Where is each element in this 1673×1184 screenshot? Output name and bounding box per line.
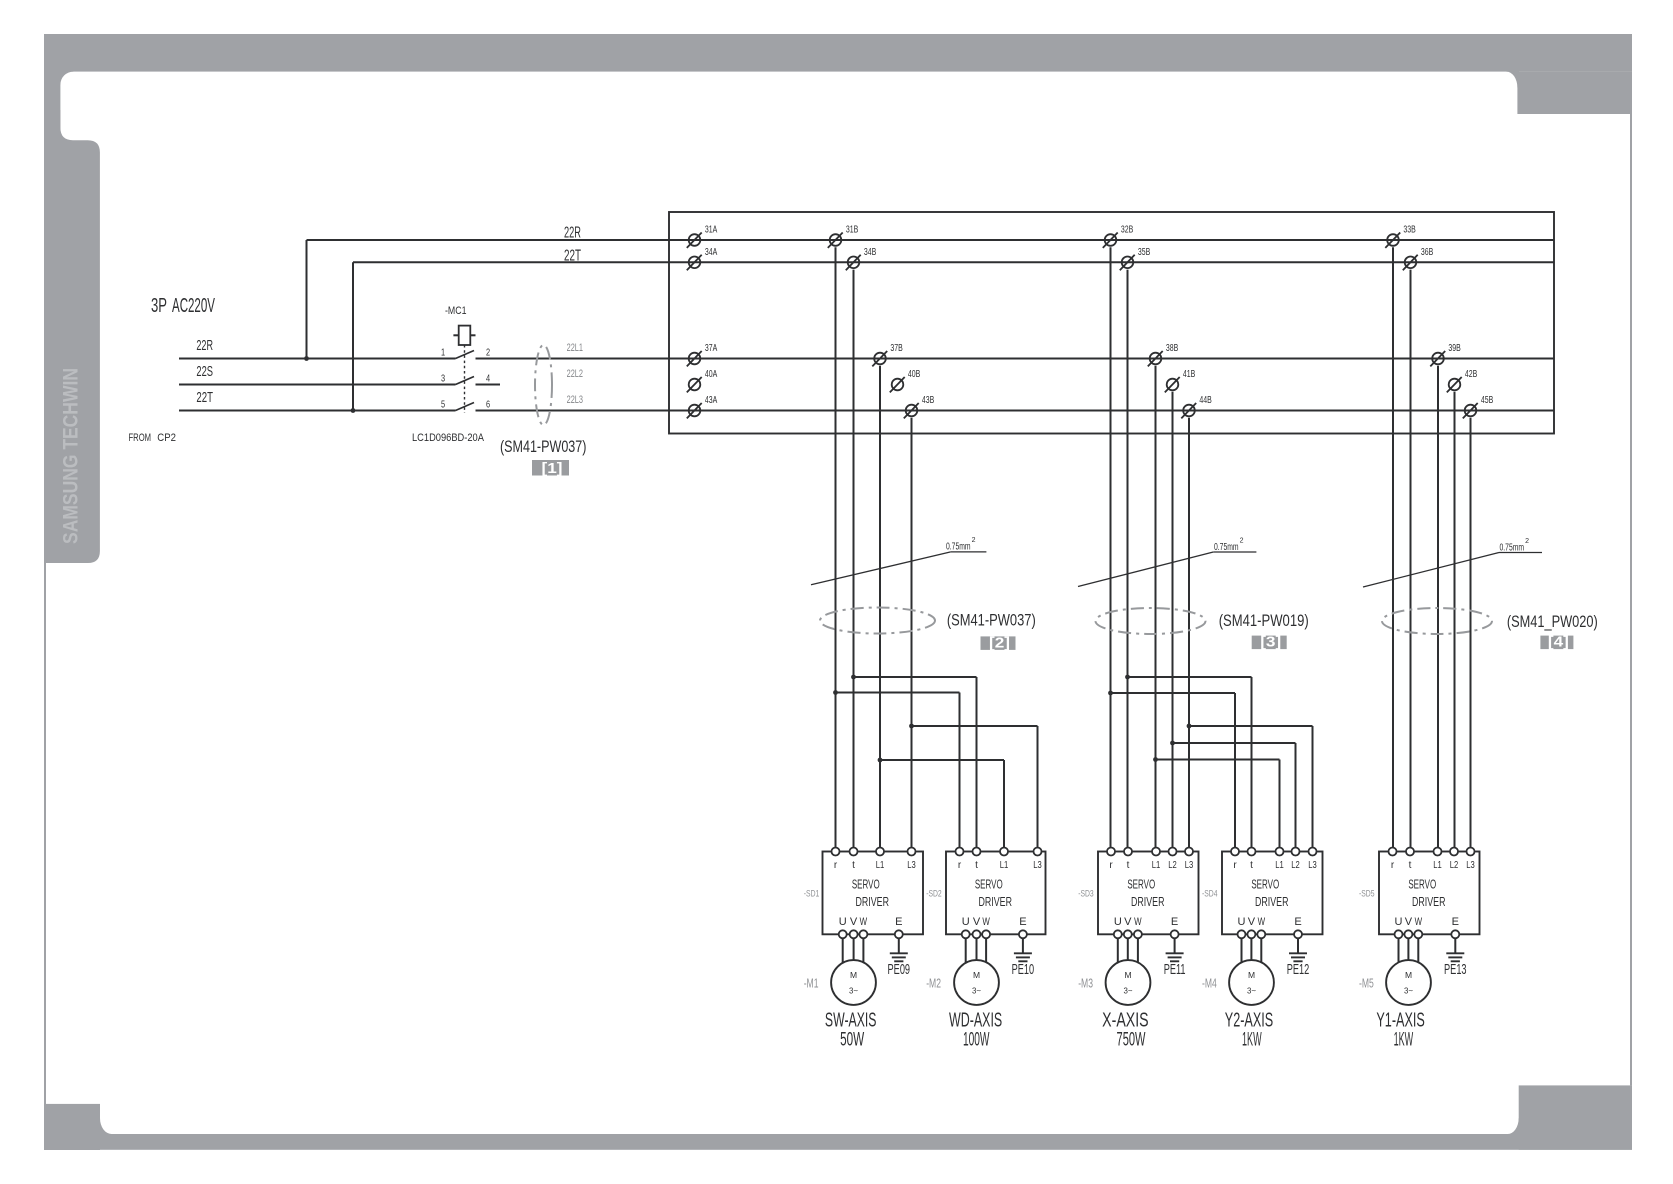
- svg-text:E: E: [895, 916, 902, 928]
- svg-text:45B: 45B: [1481, 394, 1494, 406]
- svg-text:DRIVER: DRIVER: [1131, 896, 1165, 910]
- wire SD4 r branch: [1111, 693, 1236, 848]
- svg-text:34B: 34B: [864, 246, 877, 258]
- motor M5 Y1-AXIS 1KW: [1359, 960, 1431, 1051]
- node FROM CP2 label: [129, 431, 177, 444]
- fuse 44B: [1181, 394, 1212, 419]
- svg-text:32B: 32B: [1121, 223, 1134, 235]
- svg-text:3~: 3~: [972, 986, 981, 995]
- cable reference badge [3]: [1252, 635, 1287, 651]
- junction on 22R: [304, 356, 309, 361]
- svg-text:2: 2: [486, 346, 490, 357]
- fuse 35B: [1120, 246, 1151, 271]
- fuse 45B: [1463, 394, 1494, 419]
- svg-text:3: 3: [441, 372, 445, 383]
- svg-text:r: r: [958, 860, 962, 871]
- svg-text:L3: L3: [1033, 859, 1042, 870]
- svg-text:CP2: CP2: [157, 431, 176, 444]
- svg-text:SAMSUNG TECHWIN: SAMSUNG TECHWIN: [59, 368, 83, 544]
- svg-text:E: E: [1171, 916, 1178, 928]
- junction SD4 t tap: [1125, 675, 1130, 680]
- fuse 33B: [1385, 223, 1416, 248]
- svg-text:3~: 3~: [1124, 986, 1133, 995]
- svg-text:t: t: [1409, 860, 1412, 871]
- svg-text:M: M: [973, 970, 980, 980]
- svg-text:3~: 3~: [1404, 986, 1413, 995]
- wire SD2 L3 branch: [912, 726, 1038, 848]
- junction SD4 L3 tap: [1187, 724, 1192, 729]
- svg-text:31A: 31A: [705, 223, 718, 235]
- fuse 43B: [904, 394, 935, 419]
- svg-text:44B: 44B: [1199, 394, 1212, 406]
- svg-text:36B: 36B: [1421, 246, 1434, 258]
- svg-text:DRIVER: DRIVER: [979, 896, 1013, 910]
- wire SD4 L1 branch: [1156, 760, 1280, 848]
- fuse 34A: [687, 246, 718, 271]
- motor M1 SW-AXIS 50W: [804, 960, 877, 1050]
- wire SD3 E to ground: [1174, 938, 1176, 953]
- svg-text:U: U: [962, 916, 970, 928]
- svg-text:31B: 31B: [846, 223, 859, 235]
- svg-text:-M3: -M3: [1078, 977, 1093, 991]
- svg-text:3P: 3P: [151, 294, 167, 316]
- fuse 40B: [890, 368, 921, 393]
- svg-text:37A: 37A: [705, 342, 718, 354]
- junction SD2 r tap: [833, 690, 838, 695]
- svg-text:33B: 33B: [1403, 223, 1416, 235]
- wire drop 31B to SD1 r: [835, 247, 837, 847]
- junction SD2 L1 tap: [878, 758, 883, 763]
- svg-text:t: t: [1127, 860, 1130, 871]
- cable marker ellipse SM41-PW037 vertical: [535, 345, 552, 425]
- junction SD4 L1 tap: [1153, 757, 1158, 762]
- svg-text:22R: 22R: [196, 337, 213, 354]
- svg-text:1: 1: [441, 346, 445, 357]
- svg-text:U: U: [1114, 916, 1122, 928]
- svg-text:L3: L3: [907, 859, 916, 870]
- wire SD4 E to ground: [1297, 938, 1299, 953]
- svg-text:W: W: [860, 916, 867, 929]
- fuse 43A: [687, 394, 718, 419]
- node 3P AC220V supply label: [151, 294, 215, 317]
- svg-text:L1: L1: [1433, 859, 1442, 870]
- cable marker ellipse SM41-PW019 group: [1096, 608, 1206, 634]
- svg-text:-M1: -M1: [804, 977, 819, 991]
- svg-text:DRIVER: DRIVER: [1255, 896, 1289, 910]
- fuse 42B: [1447, 368, 1478, 393]
- fuse 34B: [846, 246, 877, 271]
- svg-text:t: t: [852, 860, 855, 871]
- svg-text:U: U: [839, 916, 847, 928]
- motor M2 WD-AXIS 100W: [926, 960, 1002, 1050]
- svg-text:E: E: [1294, 916, 1301, 928]
- svg-text:22S: 22S: [196, 363, 213, 380]
- svg-text:SERVO: SERVO: [1408, 879, 1436, 892]
- svg-text:37B: 37B: [890, 342, 903, 354]
- fuse 32B: [1103, 223, 1134, 248]
- svg-text:M: M: [850, 970, 857, 980]
- wire-size leader G2 0.75mm2: [1078, 538, 1256, 587]
- svg-text:L2: L2: [1168, 859, 1177, 870]
- wire 22T riser: [352, 262, 354, 410]
- svg-text:[3]: [3]: [1260, 635, 1281, 651]
- contactor MC1 contact 3-4: [441, 372, 490, 384]
- svg-text:40B: 40B: [908, 368, 921, 380]
- svg-text:-M4: -M4: [1202, 977, 1217, 991]
- svg-text:r: r: [1391, 860, 1395, 871]
- cable marker ellipse SM41_PW020 group: [1382, 608, 1492, 634]
- svg-text:42B: 42B: [1465, 368, 1478, 380]
- svg-text:(SM41-PW019): (SM41-PW019): [1219, 613, 1309, 631]
- svg-text:-SD3: -SD3: [1078, 888, 1094, 898]
- svg-text:PE11: PE11: [1164, 961, 1186, 978]
- wire drop 42B to SD5 L2: [1454, 392, 1456, 848]
- svg-text:(SM41-PW037): (SM41-PW037): [947, 612, 1036, 630]
- svg-text:W: W: [982, 916, 989, 929]
- wire 22L1 row: [476, 342, 1555, 359]
- svg-text:1KW: 1KW: [1394, 1029, 1414, 1051]
- fuse 37A: [687, 342, 718, 367]
- svg-text:W: W: [1134, 916, 1141, 929]
- svg-text:35B: 35B: [1138, 246, 1151, 258]
- svg-text:2: 2: [972, 537, 976, 544]
- svg-text:V: V: [1124, 916, 1132, 928]
- wire SD2 t branch: [854, 677, 977, 848]
- fuse 31A: [687, 223, 718, 248]
- svg-text:0.75mm: 0.75mm: [946, 540, 971, 552]
- servo driver U1 SD1: [804, 848, 923, 964]
- wire SD1 E to ground: [898, 938, 900, 953]
- svg-text:L2: L2: [1450, 859, 1459, 870]
- fuse 37B: [872, 342, 903, 367]
- wire drop 35B to SD3 t: [1127, 270, 1129, 848]
- servo driver U5 SD5: [1359, 848, 1480, 964]
- ground PE12: [1287, 953, 1310, 977]
- svg-text:PE13: PE13: [1444, 961, 1467, 978]
- svg-text:SERVO: SERVO: [1251, 879, 1279, 892]
- fuse 38B: [1148, 342, 1179, 367]
- svg-text:22L2: 22L2: [567, 368, 583, 380]
- svg-text:22L3: 22L3: [567, 394, 583, 406]
- svg-text:(SM41_PW020): (SM41_PW020): [1507, 613, 1598, 631]
- svg-text:2: 2: [1525, 538, 1529, 545]
- wire drop 41B to SD3 L2: [1172, 392, 1174, 848]
- junction on 22T: [351, 408, 356, 413]
- svg-text:-M5: -M5: [1359, 977, 1374, 991]
- svg-text:AC220V: AC220V: [172, 295, 215, 317]
- wire 22R bus: [307, 224, 1555, 241]
- svg-text:22T: 22T: [196, 389, 213, 406]
- cable reference badge [4]: [1540, 635, 1573, 651]
- junction SD2 L3 tap: [909, 724, 914, 729]
- svg-text:1KW: 1KW: [1242, 1029, 1262, 1051]
- svg-text:750W: 750W: [1117, 1030, 1146, 1051]
- motor M4 Y2-AXIS 1KW: [1202, 960, 1274, 1051]
- svg-text:L1: L1: [1275, 859, 1284, 870]
- ground PE13: [1444, 953, 1467, 977]
- svg-text:W: W: [1415, 916, 1422, 929]
- svg-text:34A: 34A: [705, 246, 718, 258]
- cable label (SM41-PW019) [3]: [1219, 613, 1309, 631]
- svg-text:Y1-AXIS: Y1-AXIS: [1376, 1008, 1424, 1031]
- svg-text:LC1D096BD-20A: LC1D096BD-20A: [412, 432, 484, 444]
- svg-text:W: W: [1258, 916, 1265, 929]
- wire-size leader G3 0.75mm2: [1363, 538, 1542, 587]
- wire 22R source: [179, 337, 456, 359]
- wire 22L2 stub: [476, 368, 584, 385]
- svg-text:22T: 22T: [564, 246, 581, 264]
- svg-text:L1: L1: [876, 859, 885, 870]
- svg-text:t: t: [975, 860, 978, 871]
- cable label (SM41-PW037) [1]: [500, 437, 586, 456]
- svg-text:SERVO: SERVO: [975, 879, 1003, 892]
- svg-text:-M2: -M2: [926, 977, 941, 991]
- svg-text:[1]: [1]: [542, 461, 563, 477]
- svg-text:SERVO: SERVO: [1127, 879, 1155, 892]
- cable label (SM41_PW020) [4]: [1507, 613, 1598, 631]
- svg-text:0.75mm: 0.75mm: [1214, 541, 1239, 553]
- svg-text:-SD4: -SD4: [1202, 888, 1218, 898]
- contactor type label LC1D096BD-20A: [412, 432, 484, 444]
- wire 22L3 row: [476, 394, 1555, 411]
- wire 22R riser: [306, 240, 308, 359]
- wire drop 34B to SD1 t: [853, 270, 855, 848]
- svg-text:4: 4: [486, 372, 490, 383]
- svg-text:M: M: [1405, 970, 1412, 980]
- servo driver U3 SD3: [1078, 848, 1198, 964]
- svg-text:Y2-AXIS: Y2-AXIS: [1225, 1008, 1273, 1031]
- wire drop 39B to SD5 L1: [1437, 366, 1439, 848]
- junction SD4 r tap: [1108, 691, 1113, 696]
- svg-text:(SM41-PW037): (SM41-PW037): [500, 437, 586, 456]
- svg-text:L3: L3: [1185, 859, 1194, 870]
- contactor MC1 coil: [445, 305, 476, 345]
- wire drop 44B to SD3 L3: [1188, 418, 1190, 848]
- ground PE9: [888, 953, 911, 977]
- svg-text:[4]: [4]: [1548, 635, 1569, 651]
- svg-text:E: E: [1019, 916, 1026, 928]
- ground PE11: [1164, 953, 1186, 977]
- svg-text:-SD2: -SD2: [926, 888, 942, 898]
- svg-text:U: U: [1238, 916, 1246, 928]
- fuse 41B: [1165, 368, 1196, 393]
- svg-text:41B: 41B: [1183, 368, 1196, 380]
- wire drop 43B to SD1 L3: [911, 418, 913, 848]
- svg-text:PE10: PE10: [1012, 961, 1035, 978]
- wire 22S source: [179, 363, 456, 385]
- fuse 40A: [687, 368, 718, 393]
- cable reference badge [2]: [981, 636, 1016, 652]
- fuse panel box: [669, 212, 1554, 434]
- svg-text:2: 2: [1240, 538, 1244, 545]
- cable label (SM41-PW037) [2]: [947, 612, 1036, 630]
- svg-text:DRIVER: DRIVER: [856, 896, 890, 910]
- wire SD2 L1 branch: [880, 760, 1004, 848]
- svg-text:43A: 43A: [705, 394, 718, 406]
- wire drop 45B to SD5 L3: [1470, 418, 1472, 848]
- svg-text:DRIVER: DRIVER: [1412, 896, 1446, 910]
- svg-text:PE12: PE12: [1287, 961, 1310, 978]
- fuse 31B: [828, 223, 859, 248]
- svg-text:r: r: [1233, 860, 1237, 871]
- svg-text:L1: L1: [1152, 859, 1161, 870]
- fuse 36B: [1403, 246, 1434, 271]
- svg-text:V: V: [1248, 916, 1256, 928]
- svg-text:0.75mm: 0.75mm: [1500, 541, 1525, 553]
- svg-text:r: r: [1109, 860, 1113, 871]
- junction SD2 t tap: [851, 675, 856, 680]
- wire SD2 r branch: [836, 693, 960, 848]
- svg-text:43B: 43B: [922, 394, 935, 406]
- junction SD4 L2 tap: [1170, 741, 1175, 746]
- svg-text:r: r: [834, 860, 838, 871]
- svg-text:V: V: [973, 916, 981, 928]
- contactor MC1 contact 1-2: [441, 346, 490, 358]
- wire 22T source: [179, 389, 456, 411]
- svg-text:L1: L1: [1000, 859, 1009, 870]
- svg-text:L2: L2: [1291, 859, 1300, 870]
- svg-text:M: M: [1124, 970, 1131, 980]
- svg-text:X-AXIS: X-AXIS: [1102, 1008, 1148, 1031]
- svg-text:5: 5: [441, 398, 445, 409]
- wire drop 38B to SD3 L1: [1155, 366, 1157, 848]
- wire drop 37B to SD1 L1: [879, 366, 881, 848]
- wire SD5 E to ground: [1454, 938, 1456, 953]
- svg-text:6: 6: [486, 398, 490, 409]
- svg-text:-MC1: -MC1: [445, 305, 467, 317]
- svg-text:50W: 50W: [840, 1029, 865, 1051]
- contactor MC1 linkage: [464, 345, 466, 413]
- svg-text:WD-AXIS: WD-AXIS: [949, 1008, 1002, 1031]
- wire drop 36B to SD5 t: [1410, 270, 1412, 848]
- svg-text:t: t: [1250, 860, 1253, 871]
- svg-text:E: E: [1452, 916, 1459, 928]
- ground PE10: [1012, 953, 1035, 977]
- svg-text:U: U: [1395, 916, 1403, 928]
- svg-text:SERVO: SERVO: [852, 879, 880, 892]
- fuse 39B: [1430, 342, 1461, 367]
- svg-text:22L1: 22L1: [567, 342, 583, 354]
- svg-text:38B: 38B: [1166, 342, 1179, 354]
- svg-text:FROM: FROM: [129, 432, 152, 445]
- svg-text:V: V: [1405, 916, 1413, 928]
- contactor MC1 contact 5-6: [441, 398, 490, 410]
- svg-text:3~: 3~: [1247, 986, 1256, 995]
- wire SD2 E to ground: [1022, 938, 1024, 953]
- svg-text:3~: 3~: [849, 986, 858, 995]
- wire-size leader G1 0.75mm2: [811, 537, 986, 585]
- wire drop 33B to SD5 r: [1392, 247, 1394, 847]
- servo driver U2 SD2: [926, 848, 1045, 964]
- wire SD4 L2 branch: [1173, 743, 1296, 848]
- svg-text:-SD1: -SD1: [804, 888, 820, 898]
- svg-text:V: V: [850, 916, 858, 928]
- svg-text:39B: 39B: [1448, 342, 1461, 354]
- svg-text:PE09: PE09: [888, 961, 911, 978]
- wire drop 32B to SD3 r: [1110, 247, 1112, 847]
- svg-text:M: M: [1248, 970, 1255, 980]
- wire SD4 L3 branch: [1189, 726, 1313, 848]
- wire 22T bus: [353, 246, 1554, 264]
- svg-text:[2]: [2]: [989, 636, 1010, 652]
- cable marker ellipse SM41-PW037 group: [820, 608, 935, 634]
- svg-text:22R: 22R: [564, 224, 581, 241]
- svg-text:-SD5: -SD5: [1359, 888, 1375, 898]
- motor M3 X-AXIS 750W: [1078, 960, 1150, 1050]
- svg-text:L3: L3: [1466, 859, 1475, 870]
- svg-text:L3: L3: [1308, 859, 1317, 870]
- servo driver U4 SD4: [1202, 848, 1323, 964]
- svg-text:40A: 40A: [705, 368, 718, 380]
- wire SD4 t branch: [1128, 677, 1252, 848]
- cable reference badge [1]: [532, 460, 569, 477]
- svg-text:100W: 100W: [963, 1029, 990, 1050]
